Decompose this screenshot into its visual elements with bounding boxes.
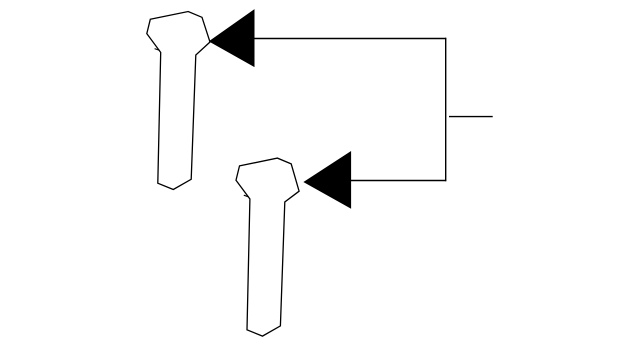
leader line from vertical to arrow 2 — [351, 180, 447, 182]
bolt 2 (lower hex bolt outline, translated copy) — [236, 158, 299, 336]
vertical leader line on right — [445, 38, 447, 181]
bolt 1 (upper-left hex bolt outline) — [147, 12, 210, 190]
leader line from arrow 1 to right vertical — [254, 38, 446, 40]
bolt 2 notch (small stray stroke on head lower-left) — [244, 195, 249, 197]
arrow 1 (filled callout arrowhead pointing to bolt 1) — [210, 10, 254, 66]
short tick line at right mid — [449, 116, 493, 118]
arrow 2 (filled callout arrowhead pointing to bolt 2) — [304, 152, 350, 208]
bolt 1 notch (small stray stroke on head lower-left) — [155, 49, 160, 51]
